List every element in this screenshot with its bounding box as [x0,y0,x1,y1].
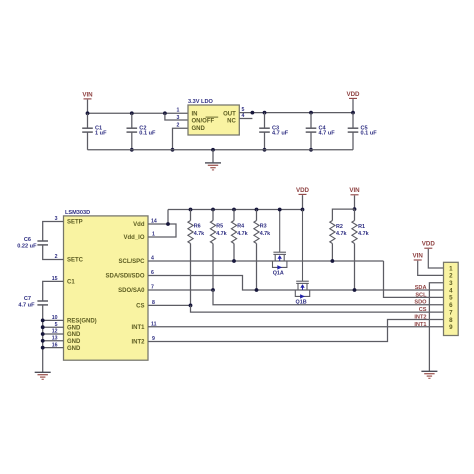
svg-text:VIN: VIN [82,91,93,98]
wire INT1 net [148,326,444,328]
wire C6 to SETC [43,245,64,260]
svg-text:C6: C6 [24,237,31,243]
node junction C3 top [263,111,267,115]
svg-text:CS: CS [136,304,144,310]
svg-text:SCL: SCL [415,292,427,298]
node junction R1/SDA [353,288,357,292]
wire top-right rail from OUT [239,112,353,114]
node junction VDD rail end [301,208,305,212]
capacitor C7 [18,296,48,308]
node junction gnd bus 4 [41,339,45,343]
svg-text:VDD: VDD [296,187,310,194]
svg-text:4.7 uF: 4.7 uF [272,131,289,137]
wire SDO net to connector [213,290,444,305]
svg-text:IN: IN [192,112,198,118]
resistor R6 4.7k [188,210,204,244]
node junction R5/SDO [211,288,215,292]
svg-text:C1: C1 [67,280,75,286]
svg-text:SCL/SPC: SCL/SPC [118,259,145,265]
svg-text:INT1: INT1 [131,325,145,331]
node junction C3 bottom [263,148,267,152]
power flag VDD (connector) [422,241,444,268]
svg-text:4: 4 [449,287,453,294]
svg-text:3: 3 [177,115,180,121]
svg-text:GND: GND [67,339,81,345]
node junction R6/CS [189,304,193,308]
wire C7 / ground bus [42,305,44,372]
wire R2 lower to SCL [331,244,333,262]
wire GND pin12 stub [43,333,64,335]
svg-text:1: 1 [177,108,180,114]
wire NC pin 4 stub [239,118,252,120]
wire VDD pullup rail [168,209,303,211]
node junction LDO gnd / bottom rail [171,148,175,152]
node junction R3 top [255,208,259,212]
node junction C4 bottom [309,148,313,152]
node junction R2/SCL [331,259,335,263]
wire INT2 net [148,319,444,341]
svg-text:VIN: VIN [413,252,424,259]
svg-text:0.22 uF: 0.22 uF [17,243,37,249]
transistor Q1B [295,210,309,306]
svg-text:5: 5 [242,107,245,113]
svg-text:4.7k: 4.7k [358,231,369,237]
svg-text:SDO: SDO [414,300,427,306]
wire SCL jog down to connector [384,261,444,297]
IC U1 LSM303D [64,210,149,360]
wire CS stub from pin 8 [148,304,191,306]
power flag VIN (connector) [413,252,444,275]
svg-text:INT2: INT2 [414,314,426,320]
connector J1 1x9 header [444,262,459,335]
svg-text:4.7k: 4.7k [216,231,227,237]
node junction IN/ON-OFF tie [163,111,167,115]
ground (IC section) [35,372,51,379]
node junction R5 top [211,208,215,212]
wire R4 lower [233,244,235,262]
wire R1 lower to SDA [354,244,356,291]
wire GND pin5 stub [43,326,64,328]
svg-text:4.7k: 4.7k [194,231,205,237]
svg-text:GND: GND [67,346,81,352]
svg-text:NC: NC [227,119,236,125]
svg-text:R6: R6 [194,223,201,229]
transistor Q1A [273,210,287,277]
node junction R4 top [232,208,236,212]
svg-text:1 uF: 1 uF [95,131,107,137]
node junction C2 top [130,111,134,115]
svg-text:Q1A: Q1A [273,271,284,277]
node junction VIN/R1/R2 [353,207,357,211]
svg-text:CS: CS [419,307,427,313]
svg-text:ON/OFF: ON/OFF [192,119,215,125]
node junction C2 bottom [130,148,134,152]
wire R5 lower [212,244,214,291]
svg-text:R3: R3 [260,223,267,229]
wire RES(GND) stub [43,319,64,321]
IC U1 left pin names [67,220,97,352]
wire SDA net from pin 6 [148,276,444,291]
node junction Q1A gate on rail [278,208,282,212]
wire LDO GND pin to bottom rail [173,128,189,150]
resistor R1 4.7k [352,209,369,243]
resistor R2 4.7k [330,221,347,244]
svg-text:6: 6 [449,302,453,309]
svg-text:4.7 uF: 4.7 uF [18,303,35,309]
svg-text:3: 3 [449,280,453,287]
wire top-left rail [88,112,189,114]
svg-text:VIN: VIN [349,187,360,194]
svg-text:0.1 uF: 0.1 uF [139,131,156,137]
wire CS net to connector [191,305,444,312]
svg-text:SDA/SDI/SDO: SDA/SDI/SDO [105,274,144,280]
IC U1 right pin names [105,222,145,346]
node junction R6 top [189,208,193,212]
resistor R5 4.7k [210,210,226,244]
svg-text:VDD: VDD [346,91,360,98]
wire bottom rail (top section) [88,149,354,151]
svg-text:R4: R4 [237,223,244,229]
wire Vdd pin to rail [148,210,168,225]
wire connector pin 3 to ground [429,283,443,372]
svg-text:C7: C7 [24,296,31,302]
ground (top section) [205,163,221,170]
node junction gnd bus 5 [41,346,45,350]
svg-text:LSM303D: LSM303D [65,210,90,216]
svg-text:4.7 uF: 4.7 uF [319,131,336,137]
svg-text:R2: R2 [336,224,343,230]
wire SCL net (3.3V side) [148,260,384,262]
power flag VDD (top right) [346,91,360,113]
wire ON/OFF tie [165,113,188,120]
resistor R3 4.7k [254,210,270,244]
voltage regulator U2 3.3V LDO [188,99,239,135]
svg-text:9: 9 [449,324,453,331]
svg-text:SETC: SETC [67,258,84,264]
node junction R3/SDA [255,288,259,292]
svg-text:R1: R1 [358,224,365,230]
svg-text:2: 2 [177,123,180,129]
wire SETP to C6 [43,222,64,242]
node junction gnd bus 1 [41,319,45,323]
svg-text:0.1 uF: 0.1 uF [361,131,378,137]
svg-text:4.7k: 4.7k [237,231,248,237]
svg-text:SDO/SA0: SDO/SA0 [118,288,145,294]
svg-text:OUT: OUT [223,112,236,118]
svg-text:2: 2 [449,273,453,280]
svg-text:7: 7 [449,309,453,316]
resistor R4 4.7k [231,210,247,244]
svg-text:4.7k: 4.7k [260,231,271,237]
svg-text:INT2: INT2 [131,340,145,346]
node junction gnd bus 3 [41,332,45,336]
node junction C4 top [309,111,313,115]
svg-text:GND: GND [192,126,206,132]
wire ground stub [212,150,214,163]
wire SDO stub from pin 7 [148,289,213,291]
capacitor C4 [306,113,336,150]
capacitor C5 [348,113,378,150]
svg-text:5: 5 [449,295,453,302]
wire GND pin13 stub [43,340,64,342]
svg-text:3.3V LDO: 3.3V LDO [188,99,214,105]
svg-text:SDA: SDA [415,285,427,291]
capacitor C2 [127,113,157,150]
node junction OUT [251,111,255,115]
svg-text:Vdd_IO: Vdd_IO [123,235,144,241]
wire R2 top link [332,209,354,220]
power flag VIN (top left) [82,91,93,113]
wire R6 lower [190,244,192,306]
power flag VIN (pullup) [349,187,360,209]
wire GND pin16 stub [43,347,64,349]
node junction Vdd/Vdd_IO [166,222,170,226]
svg-text:GND: GND [67,332,81,338]
node junction VIN/C1 [86,111,90,115]
wire C1 pin to C7 [43,281,64,301]
svg-text:GND: GND [67,325,81,331]
capacitor C1 [82,113,107,150]
svg-text:VDD: VDD [422,241,436,248]
svg-text:INT1: INT1 [414,322,426,328]
wire Vdd_IO pin [148,224,176,237]
power flag VDD (pullup rail) [296,187,310,210]
svg-text:SETP: SETP [67,220,83,226]
svg-text:RES(GND): RES(GND) [67,319,97,325]
node junction R4/SCL [232,259,236,263]
ground (connector) [421,371,437,378]
node junction gnd bus 2 [41,325,45,329]
svg-text:1: 1 [449,265,453,272]
capacitor C3 [259,113,289,150]
svg-text:8: 8 [449,317,453,324]
svg-text:Vdd: Vdd [133,222,145,228]
svg-text:4.7k: 4.7k [336,231,347,237]
node junction VDD/C5 [351,111,355,115]
node junction ground / bottom rail [211,148,215,152]
wire R3 lower [256,244,258,291]
svg-text:R5: R5 [216,223,223,229]
capacitor C6 [17,237,48,249]
